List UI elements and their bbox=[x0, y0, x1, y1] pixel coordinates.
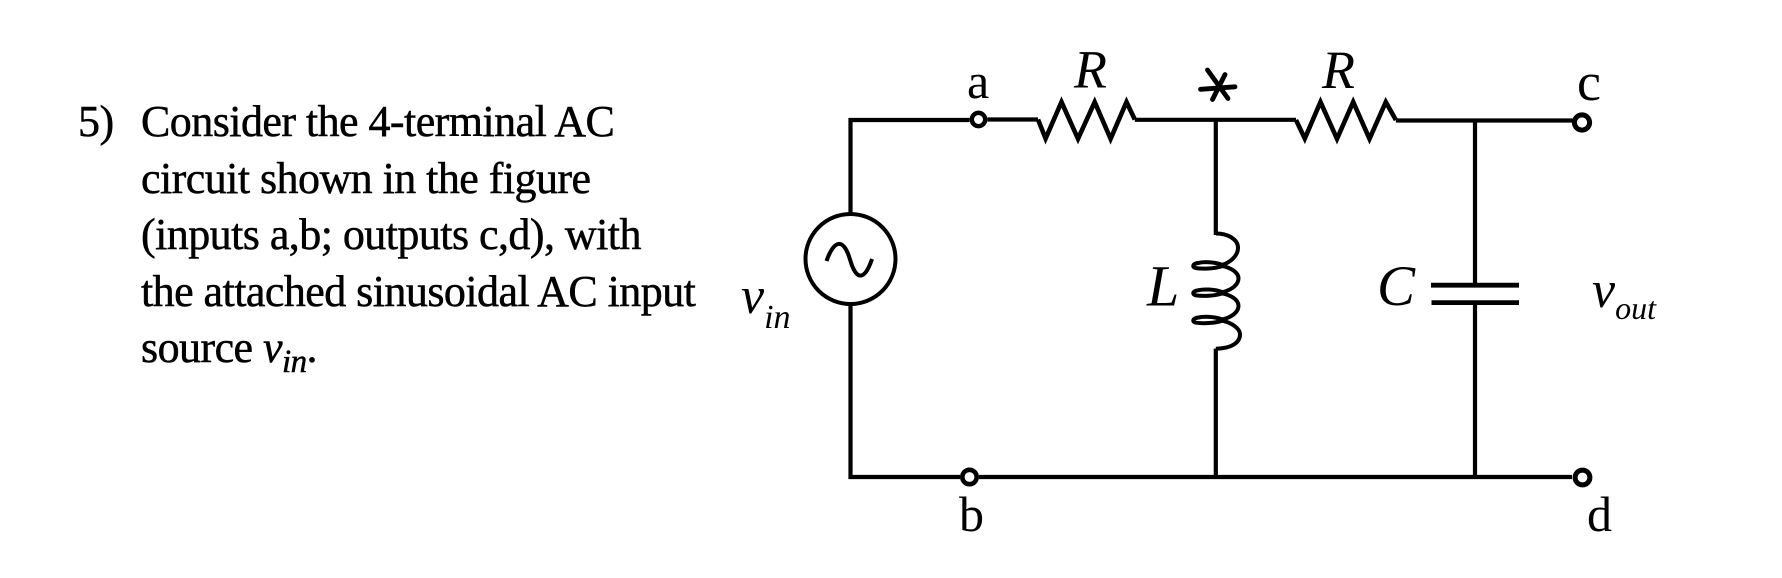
resistor R2 bbox=[1296, 102, 1396, 139]
svg-text:a: a bbox=[967, 53, 989, 109]
svg-text:b: b bbox=[959, 486, 984, 542]
terminal c bbox=[1574, 115, 1589, 130]
svg-text:L: L bbox=[1146, 254, 1179, 319]
wire terminal a to resistor R1 bbox=[988, 117, 1039, 121]
terminal d bbox=[1575, 470, 1590, 485]
problem text bbox=[78, 94, 695, 390]
wire capacitor branch top bbox=[1473, 121, 1477, 286]
wire capacitor branch bottom bbox=[1473, 303, 1477, 477]
wire inductor branch top bbox=[1214, 120, 1218, 235]
capacitor C plates bbox=[1431, 285, 1519, 302]
svg-text:vin: vin bbox=[741, 268, 791, 336]
terminal a bbox=[972, 113, 985, 126]
svg-text:c: c bbox=[1577, 52, 1601, 112]
svg-text:R: R bbox=[1073, 40, 1107, 100]
wire resistor R1 to resistor R2 through node bbox=[1135, 118, 1296, 122]
wire resistor R2 to terminal c bbox=[1396, 118, 1573, 122]
wire inductor branch bottom bbox=[1214, 349, 1218, 477]
resistor R1 bbox=[1038, 102, 1135, 139]
svg-text:R: R bbox=[1321, 40, 1355, 100]
svg-text:d: d bbox=[1587, 486, 1612, 542]
node asterisk bbox=[1201, 70, 1236, 100]
inductor L coil bbox=[1193, 233, 1240, 348]
svg-text:C: C bbox=[1377, 255, 1416, 318]
wire bottom rail (terminal b to terminal d) bbox=[979, 475, 1572, 479]
wire bottom-left (source to terminal b) bbox=[851, 304, 961, 477]
terminal b bbox=[962, 470, 976, 484]
svg-text:vout: vout bbox=[1592, 262, 1657, 326]
AC source V1 bbox=[806, 214, 896, 304]
wire top-left (source to terminal a) bbox=[851, 120, 970, 214]
